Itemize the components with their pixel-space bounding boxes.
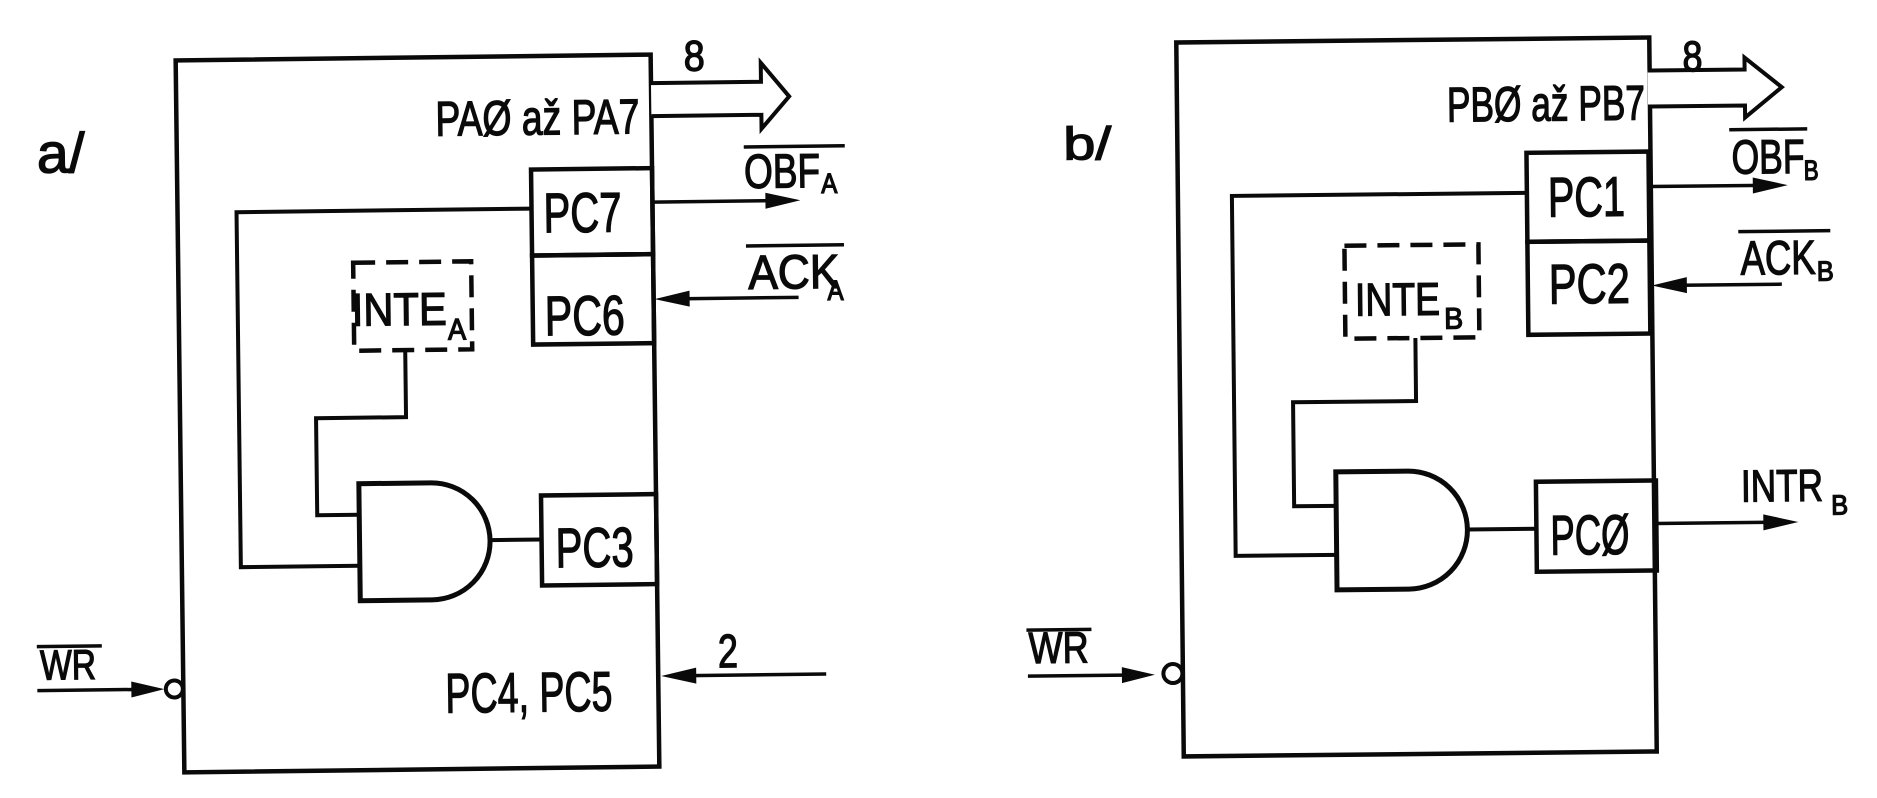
svg-text:OBF: OBF — [744, 145, 821, 199]
svg-text:PC2: PC2 — [1549, 252, 1631, 316]
svg-text:8: 8 — [683, 32, 705, 80]
svg-text:PAØ až PA7: PAØ až PA7 — [435, 90, 640, 146]
svg-text:OBF: OBF — [1731, 131, 1805, 185]
svg-text:B: B — [1803, 155, 1818, 186]
svg-text:INTR: INTR — [1741, 460, 1824, 512]
svg-text:PC3: PC3 — [555, 515, 634, 579]
svg-text:PC7: PC7 — [543, 180, 622, 244]
svg-text:B: B — [1817, 256, 1834, 287]
svg-text:B: B — [1831, 489, 1848, 520]
svg-text:PC6: PC6 — [544, 283, 625, 347]
svg-text:A: A — [821, 168, 838, 199]
svg-text:2: 2 — [718, 624, 739, 677]
svg-text:PCØ: PCØ — [1550, 503, 1630, 567]
svg-text:ACK: ACK — [748, 246, 840, 300]
svg-text:A: A — [448, 313, 466, 346]
svg-text:INTE: INTE — [1355, 273, 1441, 326]
svg-text:ACK: ACK — [1740, 232, 1816, 286]
svg-text:8: 8 — [1682, 33, 1703, 81]
svg-text:PC1: PC1 — [1548, 165, 1626, 229]
svg-text:PBØ až PB7: PBØ až PB7 — [1447, 77, 1646, 133]
svg-text:INTE: INTE — [351, 283, 447, 336]
svg-text:B: B — [1444, 303, 1463, 336]
svg-text:WR: WR — [40, 641, 97, 689]
svg-text:WR: WR — [1028, 623, 1089, 673]
svg-text:b/: b/ — [1063, 117, 1112, 170]
svg-text:a/: a/ — [36, 121, 85, 185]
svg-text:PC4, PC5: PC4, PC5 — [445, 660, 613, 725]
svg-text:A: A — [827, 275, 844, 306]
